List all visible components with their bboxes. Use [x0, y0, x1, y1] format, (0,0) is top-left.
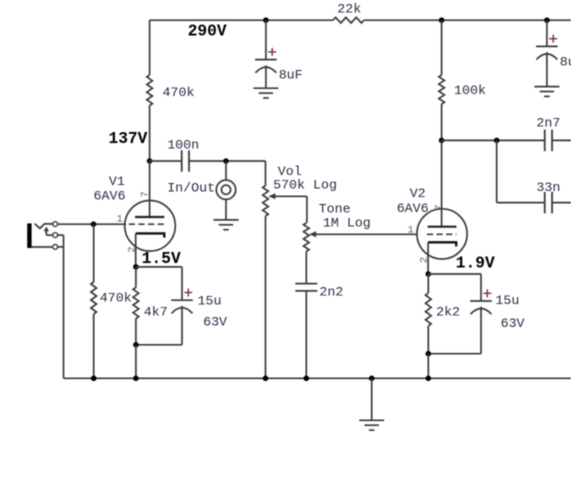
- wire: V1 cathode lead down: [135, 233, 137, 267]
- ground: 8uF no.1: [253, 88, 278, 98]
- node 1.5V junction: [133, 264, 139, 270]
- wire: 15u no.1 to bottom: [181, 306, 183, 345]
- wire: top rail down to 470k anode resistor: [149, 20, 151, 75]
- Vol pot wiper arrow: [274, 195, 307, 197]
- svg-text:6AV6: 6AV6: [94, 188, 126, 203]
- wire: 33n to right edge: [552, 202, 571, 204]
- wire: 1.5V node to 4k7: [135, 267, 137, 288]
- node 137V junction: [147, 158, 153, 164]
- svg-text:1.5V: 1.5V: [142, 250, 181, 268]
- junction input grid node: [91, 221, 97, 227]
- wire: cathode network to bus: [135, 345, 137, 379]
- svg-text:63V: 63V: [203, 315, 227, 330]
- svg-text:In/Out: In/Out: [167, 181, 215, 196]
- wire: 8uF no.1 to ground: [265, 65, 267, 88]
- wire: 2k2 to bottom node: [427, 326, 429, 354]
- wire: 470k input to bus: [93, 314, 95, 378]
- connector In/Out (phono): [216, 180, 235, 199]
- svg-text:4k7: 4k7: [144, 305, 168, 320]
- wire: V2 cathode lead down: [427, 242, 429, 274]
- svg-text:2k2: 2k2: [436, 304, 460, 319]
- wire: rail to 8uF no.2: [546, 20, 548, 46]
- plus mark: [549, 35, 557, 43]
- wire: V2 plate node right to 2n7: [442, 139, 545, 141]
- junction bus / V2 cathode: [426, 376, 432, 382]
- wire: 15u bottom to 4k7 bottom: [136, 344, 182, 346]
- plus mark: [483, 289, 491, 297]
- ground: In/Out connector: [214, 220, 239, 230]
- wire: Vol pot bottom to bus: [265, 216, 267, 378]
- svg-text:570k Log: 570k Log: [273, 178, 337, 193]
- wire: Vol wiper down to Tone pot: [306, 196, 308, 223]
- junction bus / main ground: [369, 376, 375, 382]
- ground: main: [359, 420, 384, 430]
- svg-text:100k: 100k: [454, 83, 486, 98]
- svg-text:V2: V2: [410, 186, 426, 201]
- svg-text:290V: 290V: [188, 22, 227, 40]
- wire: 1.9V node to 15u no.2 branch: [428, 273, 481, 275]
- node 4k7 bottom junction: [133, 342, 139, 348]
- capacitor C 2n7: [545, 130, 552, 152]
- svg-text:33n: 33n: [536, 180, 560, 195]
- input jack switch arrow: [45, 230, 47, 235]
- V2 cathode bar: [428, 242, 456, 246]
- svg-text:137V: 137V: [109, 130, 148, 148]
- wire: 15u no.2 bottom to 2k2 bottom: [428, 353, 481, 355]
- wire: rail to 8uF no.1: [265, 20, 267, 59]
- wire: top rail right segment: [364, 19, 571, 21]
- input jack tip spring contact: [35, 224, 53, 229]
- svg-text:2n2: 2n2: [319, 285, 343, 300]
- wire: grid node down to 470k input: [93, 224, 95, 282]
- wire: 137V node down to V1 plate: [149, 161, 151, 217]
- wire: In/Out connector to ground: [225, 199, 227, 220]
- wire: corner down to Vol pot: [265, 161, 267, 186]
- resistor R 470k anode: [147, 75, 153, 106]
- ground: 8uF no.2: [534, 87, 559, 97]
- junction top rail / 100k: [439, 17, 445, 23]
- svg-text:15u: 15u: [495, 293, 519, 308]
- wire: down to 15u no.1: [181, 267, 183, 300]
- capacitor C 100n: [182, 150, 189, 172]
- wire: 1.9V node to 2k2: [427, 274, 429, 293]
- wire: 470k to 137V node: [149, 106, 151, 162]
- wire: top rail left segment: [150, 19, 333, 21]
- capacitor 15u 63V no.1 (polarized): [171, 300, 193, 313]
- wire: Tone pot to 2n2: [305, 251, 307, 283]
- wire: 4k7 to bottom node: [135, 319, 137, 345]
- svg-text:8uF: 8uF: [279, 68, 303, 83]
- Tone pot wiper arrow: [315, 233, 418, 235]
- svg-text:470k: 470k: [100, 291, 132, 306]
- wire: to 33n: [497, 202, 545, 204]
- svg-text:22k: 22k: [337, 2, 361, 17]
- wire: jack ring to ground rail: [58, 234, 64, 236]
- wire: 2n7 to right edge: [552, 139, 571, 141]
- wire: branch down to 33n: [496, 140, 498, 202]
- svg-text:Tone: Tone: [319, 201, 351, 216]
- wire: jack ground rail down to bus: [63, 235, 65, 378]
- wire: 1.5V node to 15u branch: [136, 266, 182, 268]
- plus mark: [268, 48, 276, 56]
- svg-text:1.9V: 1.9V: [456, 255, 495, 273]
- capacitor 8uF no.2 (polarized): [536, 46, 558, 59]
- V1 cathode bar: [136, 233, 165, 237]
- svg-text:2: 2: [418, 257, 430, 263]
- svg-text:63V: 63V: [501, 316, 525, 331]
- junction In/Out branch: [223, 158, 229, 164]
- svg-text:2n7: 2n7: [536, 116, 560, 131]
- wire: bus to main ground symbol: [371, 378, 373, 420]
- V1 plate bar: [135, 216, 164, 218]
- wire: 100k to V2 plate node: [441, 104, 443, 140]
- svg-text:8u: 8u: [560, 54, 571, 69]
- wire: 2n2 to bus: [305, 291, 307, 378]
- svg-text:2: 2: [127, 246, 139, 252]
- input jack body: [27, 223, 31, 248]
- capacitor C 33n: [545, 192, 552, 214]
- wire: down to 15u no.2: [480, 274, 482, 301]
- node V2 plate junction: [439, 138, 445, 144]
- resistor R 2k2: [426, 293, 432, 326]
- wire: 137V node to 100n: [150, 160, 182, 162]
- wire: jack tip to V1 grid: [58, 223, 127, 225]
- V2 plate bar: [428, 226, 457, 228]
- junction top rail / 8uF no.2: [544, 17, 550, 23]
- junction 2n7/33n branch: [494, 138, 500, 144]
- potentiometer Tone 1M body: [304, 223, 310, 252]
- svg-text:1M Log: 1M Log: [323, 216, 371, 231]
- wire: ground bus: [64, 377, 571, 379]
- svg-text:15u: 15u: [198, 294, 222, 309]
- svg-text:1: 1: [408, 225, 414, 237]
- potentiometer Vol 570k body: [263, 186, 269, 216]
- wire: 100n to Vol pot corner: [189, 160, 266, 162]
- node 2k2 bottom junction: [426, 351, 432, 357]
- resistor R 4k7: [133, 288, 139, 319]
- V2 grid (dashed): [427, 233, 457, 235]
- V1 grid (dashed): [129, 223, 165, 225]
- plus mark: [184, 289, 192, 297]
- triode V1 6AV6 envelope: [125, 201, 176, 252]
- capacitor 15u 63V no.2 (polarized): [470, 301, 492, 314]
- capacitor 8uF no.1 (polarized): [255, 60, 277, 73]
- input jack sleeve line: [32, 246, 53, 248]
- junction bus / Vol pot: [263, 376, 269, 382]
- svg-text:V1: V1: [109, 174, 125, 189]
- svg-text:100n: 100n: [167, 138, 199, 153]
- svg-text:7: 7: [434, 204, 446, 210]
- triode V2 6AV6 envelope: [417, 209, 467, 259]
- wire: plate node down to V2 plate: [441, 140, 443, 226]
- wire: junction down to In/Out connector: [225, 161, 227, 180]
- junction top rail / 8uF no.1: [263, 17, 269, 23]
- junction bus / 2n2: [304, 376, 310, 382]
- resistor R 470k input: [91, 282, 97, 314]
- resistor R 100k: [439, 75, 445, 104]
- junction bus / V1 cathode: [133, 376, 139, 382]
- svg-text:7: 7: [140, 191, 152, 197]
- capacitor C 2n2: [295, 284, 317, 291]
- svg-text:470k: 470k: [163, 85, 195, 100]
- resistor R 22k: [333, 17, 364, 23]
- wire: jack sleeve to ground rail: [58, 246, 64, 248]
- wire: 8uF no.2 to ground: [546, 52, 548, 87]
- wire: rail down to 100k: [441, 20, 443, 75]
- wire: V2 cathode network to bus: [427, 354, 429, 379]
- svg-text:6AV6: 6AV6: [397, 201, 429, 216]
- junction bus / 470k input: [91, 376, 97, 382]
- wire: 15u no.2 to bottom: [480, 307, 482, 354]
- input jack terminal circles: [53, 222, 58, 250]
- node 1.9V junction: [426, 271, 432, 277]
